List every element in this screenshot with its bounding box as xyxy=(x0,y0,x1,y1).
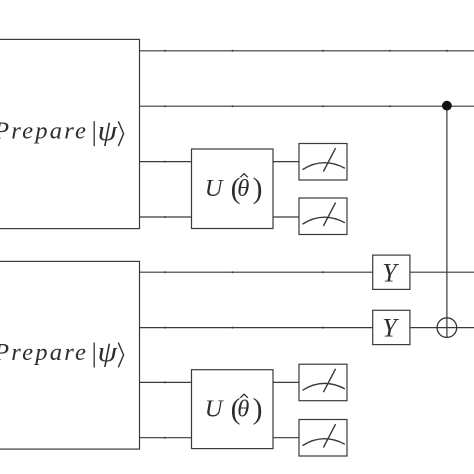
wire q4 segment box-to-U xyxy=(140,216,192,218)
wire q8 segment U-to-meter xyxy=(273,437,299,439)
wire q6 segment box-to-Y xyxy=(139,327,372,329)
gate U(theta-hat) top xyxy=(192,149,274,229)
wire q7 segment U-to-meter xyxy=(273,381,299,383)
wire q5 segment box-to-Y xyxy=(139,271,372,273)
wire q1 xyxy=(140,50,474,52)
svg-text:ψ: ψ xyxy=(98,336,118,368)
CZ/CNOT vertical control wire xyxy=(446,106,448,338)
svg-text:ψ: ψ xyxy=(98,115,118,147)
svg-text:θ: θ xyxy=(237,175,249,202)
svg-text:θ: θ xyxy=(237,396,249,423)
wire junction dots xyxy=(164,50,448,439)
wire q8 segment box-to-U xyxy=(139,437,191,439)
svg-text:Prepare: Prepare xyxy=(0,339,88,366)
wire q3 segment U-to-meter xyxy=(273,161,299,163)
wire q7 segment box-to-U xyxy=(139,381,191,383)
svg-text:): ) xyxy=(253,173,263,205)
svg-text:U: U xyxy=(205,395,225,422)
svg-text:Prepare: Prepare xyxy=(0,118,88,145)
wire q3 segment box-to-U xyxy=(140,161,192,163)
label Prepare |psi> (top) xyxy=(0,115,124,147)
meter M3 (qubit 7) xyxy=(299,364,347,401)
meter M2 (qubit 4) xyxy=(299,198,347,235)
gate U(theta-hat) bottom xyxy=(191,370,273,449)
wire q4 segment U-to-meter xyxy=(273,216,299,218)
CNOT target on wire q6 xyxy=(437,318,457,338)
wire q2 xyxy=(140,105,474,107)
svg-text:U: U xyxy=(205,175,225,202)
Prepare box 2 (bottom state-preparation block) xyxy=(0,261,139,449)
gate Y (qubit 5) xyxy=(373,255,410,289)
wire q5 segment Y-to-edge xyxy=(410,271,474,273)
meter M1 (qubit 3) xyxy=(299,144,347,181)
svg-text:Y: Y xyxy=(382,314,399,343)
meter M4 (qubit 8) xyxy=(299,420,347,457)
svg-text:Y: Y xyxy=(382,258,399,287)
wire q6 segment Y-to-edge xyxy=(410,327,474,329)
label Prepare |psi> (bottom) xyxy=(0,336,124,368)
svg-text:): ) xyxy=(253,394,263,426)
control dot on wire q2 xyxy=(442,101,452,111)
Prepare box 1 (top state-preparation block) xyxy=(0,39,140,228)
gate Y (qubit 6) xyxy=(373,310,410,344)
